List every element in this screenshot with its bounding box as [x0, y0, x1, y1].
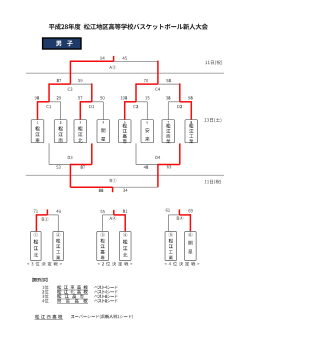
B② winner tick: [46, 209, 48, 215]
team box 1 松江東: [31, 120, 44, 143]
placement team box ④ 松江北: [119, 232, 131, 261]
label A④: [109, 216, 116, 220]
label C3: [68, 88, 73, 91]
semifinal line C4: [136, 83, 180, 85]
score 49: [56, 210, 60, 213]
score 63: [167, 165, 171, 168]
C4 right vertical: [179, 83, 181, 101]
title 平成28年度 松江地区高等学校バスケットボール新人大会: [49, 24, 208, 30]
score 58: [166, 79, 171, 82]
label B②: [42, 217, 49, 221]
caption <3位決定戦>: [27, 262, 62, 266]
quarterfinal line D2: [168, 101, 191, 103]
D2 left vertical: [167, 102, 169, 120]
caption <4位決定戦>: [165, 262, 200, 266]
score 38 left: [166, 96, 170, 99]
B④ left vertical: [167, 215, 169, 232]
super seed note 松江西高校 スーパーシード: [35, 315, 134, 320]
result row 2位 松江北高校: [42, 290, 118, 295]
loser drop from C2: [135, 143, 137, 164]
C3 right vertical: [91, 83, 93, 101]
C2 right vertical: [146, 102, 148, 120]
score 29 right: [57, 96, 61, 99]
score 50 right: [100, 96, 104, 99]
team box 7 松江商業: [162, 120, 175, 144]
score 34: [123, 189, 127, 192]
date label 11日(祝) final day: [205, 60, 222, 65]
label C2: [133, 105, 138, 108]
label C4: [155, 88, 160, 91]
C3 left vertical: [48, 83, 50, 101]
score 61: [166, 209, 170, 212]
score 98 right: [188, 96, 192, 99]
match line B1: [70, 186, 157, 188]
A④ right vertical: [124, 214, 126, 231]
boys label box 男子: [43, 38, 81, 49]
C4 left vertical: [135, 83, 137, 101]
B② right vertical: [57, 215, 59, 232]
final match line A2: [70, 60, 157, 62]
D1 right vertical: [102, 102, 104, 120]
quarterfinal line C1: [38, 101, 61, 103]
placement team box ⑥ 開星: [185, 232, 197, 261]
score 55: [100, 210, 104, 213]
score 71: [34, 210, 38, 213]
team box 6 安来: [141, 120, 154, 143]
score 69: [189, 209, 193, 212]
result row 1位 松江東高校: [42, 285, 117, 290]
score 81: [123, 210, 127, 213]
score 53: [56, 166, 60, 169]
label A2: [109, 65, 116, 69]
results header 男子結果: [32, 278, 47, 282]
score 59: [78, 79, 82, 82]
score 88: [99, 189, 104, 192]
score 94: [100, 56, 104, 59]
final right vertical from C4: [157, 61, 159, 85]
consolation line D4: [136, 164, 180, 166]
label B④: [177, 216, 184, 220]
D1 left vertical: [79, 101, 81, 120]
score 57 left: [78, 96, 82, 99]
consolation line D3: [49, 164, 92, 166]
label D4: [155, 156, 160, 159]
team box 4 開星: [97, 120, 110, 143]
semifinal line C3: [49, 83, 92, 85]
score 48: [144, 166, 149, 169]
D3 winner drop: [69, 164, 71, 187]
separator line upper: [26, 72, 224, 74]
label D3: [68, 156, 73, 159]
label D2: [177, 105, 182, 108]
final left vertical from C3: [69, 61, 71, 85]
D4 winner drop: [157, 164, 159, 187]
C1 left vertical: [37, 101, 39, 120]
score 15 right: [145, 96, 149, 99]
date label 13日(土) first round day: [204, 118, 221, 123]
loser drop from D2 winner of D4: [179, 143, 181, 164]
B② left vertical: [35, 214, 37, 231]
date label 11日(祝) placement day: [205, 180, 221, 185]
placement match line B②: [36, 214, 58, 216]
label D1: [89, 105, 94, 108]
team box 8 松江工業: [185, 120, 198, 144]
quarterfinal line C2: [125, 101, 148, 103]
score 87 in D3: [81, 166, 85, 169]
B1 winner tick: [112, 187, 114, 192]
team box 3 松江北: [74, 120, 87, 143]
placement team box ① 松江北: [31, 232, 42, 261]
score 108 left: [121, 96, 128, 99]
score 70: [144, 79, 148, 82]
loser drop from D1 winner of D3: [91, 143, 93, 164]
placement match line B④: [168, 214, 190, 216]
result row 3位 松江高専: [42, 294, 117, 299]
score 87: [57, 79, 61, 82]
loser drop from C1: [48, 143, 50, 164]
placement team box ③ 松江高専: [97, 232, 109, 261]
result row 4位 開星高校: [42, 299, 117, 304]
C2 left vertical: [124, 101, 126, 120]
label B1: [110, 178, 117, 182]
placement match line A④: [103, 214, 126, 216]
label C1: [46, 105, 51, 108]
caption <2位決定戦>: [98, 262, 133, 266]
D2 right vertical: [190, 101, 192, 120]
placement team box ② 松江工業: [53, 232, 64, 261]
score 98 left: [35, 96, 39, 99]
placement team box ⑤ 松江工業: [165, 232, 177, 261]
separator line lower: [26, 174, 224, 176]
quarterfinal line D1: [80, 101, 103, 103]
B④ winner tick: [178, 209, 180, 215]
team box 2 松江南: [54, 120, 67, 143]
champion tick: [113, 56, 115, 61]
A④ left vertical: [102, 215, 104, 232]
B④ right vertical: [189, 214, 191, 231]
team box 5 松江高専: [118, 120, 131, 144]
C1 right vertical: [60, 102, 62, 120]
A④ winner tick: [113, 210, 115, 215]
score 45: [122, 57, 126, 60]
